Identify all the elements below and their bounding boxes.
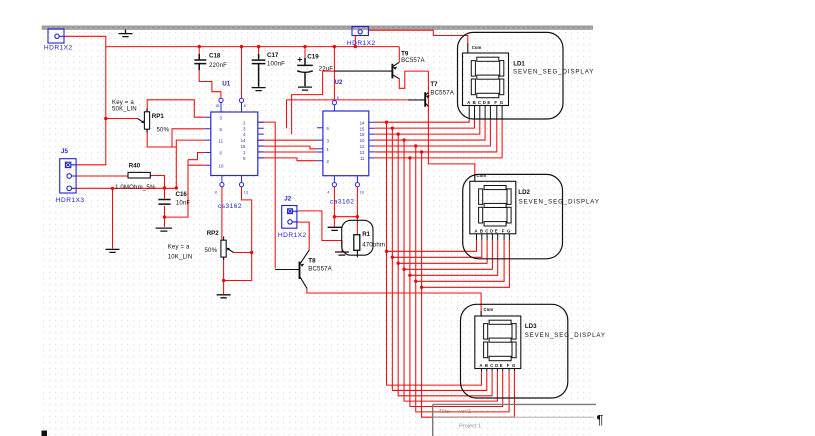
svg-text:U2: U2 (335, 79, 343, 86)
ground under RP2 (217, 295, 231, 298)
svg-text:16: 16 (215, 104, 219, 108)
junction (354, 45, 357, 48)
wire U1 bottom pin2 to RP2 bottom (224, 187, 252, 281)
wire segment C branch to LD2 pin (398, 240, 487, 263)
potentiometer RP2 (221, 237, 234, 261)
pin numbers U2 left (327, 126, 330, 164)
wire U1 row1 to T8 base (258, 122, 275, 268)
svg-text:50%: 50% (157, 126, 170, 133)
display LD2 rounded box (463, 174, 563, 258)
svg-text:ca3162: ca3162 (330, 198, 354, 205)
junction (222, 279, 225, 282)
wire segment G vertical to LD3 (422, 152, 515, 417)
capacitor C17 (252, 54, 266, 87)
svg-text:LD1: LD1 (513, 61, 525, 68)
wire segment E row U2 to LD1 pin (375, 119, 491, 146)
wire pin3 net to ground (112, 188, 114, 248)
wire bus end to T9 emitter (398, 47, 400, 62)
wire J2 pin2 to T8 emitter (298, 222, 309, 250)
wire C17 top (258, 47, 260, 58)
svg-text:cs3162: cs3162 (218, 203, 242, 210)
junction row G (420, 150, 423, 153)
wire segment A vertical to LD3 (387, 122, 482, 385)
wire U1 bottom pin1 to RP2 (221, 187, 223, 240)
wire J2 pin1 to ground near R1 (298, 211, 342, 252)
svg-text:10: 10 (360, 138, 365, 143)
IC U1 pins (205, 98, 264, 186)
wire C18 bottom to U1 pin (199, 65, 221, 99)
wire U1 row6 to U2 (258, 151, 317, 153)
wire HDR1X2-J3 to LD1 Com (368, 30, 468, 44)
svg-text:10K_LIN: 10K_LIN (168, 253, 193, 260)
wire segment B row U2 to LD1 pin (375, 119, 475, 128)
wire C19 top (304, 47, 306, 65)
LD3 pin black stubs (482, 369, 515, 372)
wire RP2 wiper junction (234, 252, 252, 254)
transistor T9 (334, 62, 399, 79)
pin numbers U1 left (219, 115, 224, 168)
display LD3 (475, 316, 521, 369)
svg-text:HDR1X2: HDR1X2 (278, 232, 307, 239)
IC U2 box (323, 111, 369, 176)
title block lines (433, 404, 596, 436)
junction row B (391, 126, 394, 129)
wire U2 bottom pin2 to R1 (356, 187, 358, 235)
wire J5 pin3 to C16 top junction (76, 187, 176, 189)
LD2 pin black stubs (477, 234, 510, 240)
capacitor C18 (194, 54, 206, 70)
svg-text:15: 15 (241, 144, 246, 149)
junction row F (414, 144, 417, 147)
svg-text:LD3: LD3 (525, 323, 537, 330)
svg-text:16: 16 (360, 191, 364, 195)
display LD3 rounded box (461, 304, 568, 398)
wire HDR1X2-J3 stub to bus (354, 36, 356, 47)
wire bus to U1 top pin2 (241, 47, 243, 99)
svg-text:15: 15 (360, 126, 365, 131)
wire segment B branch to LD2 pin (392, 240, 481, 257)
svg-text:SEVEN_SEG_DISPLAY: SEVEN_SEG_DISPLAY (519, 199, 600, 206)
svg-text:BC557A: BC557A (401, 57, 425, 64)
display LD1 (463, 53, 509, 106)
wire segment E vertical to LD3 (410, 158, 503, 407)
junction LD2 row D (402, 268, 405, 271)
pin numbers U1 right (241, 120, 246, 161)
wire segment B vertical to LD3 (392, 128, 486, 390)
junction LD2 row F (414, 280, 417, 283)
junction (163, 186, 166, 189)
svg-text:HDR1X2: HDR1X2 (44, 45, 73, 52)
junction (257, 45, 260, 48)
junction (111, 187, 114, 190)
svg-text:Com: Com (472, 45, 482, 50)
wire bus to U2 top pin (333, 47, 335, 101)
connector HDR1X2 J3 top-mid (352, 27, 368, 36)
wire VCC bus (106, 46, 400, 48)
ground left of R1 (335, 252, 349, 255)
connector HDR1X2 J1 top-left (48, 29, 64, 43)
junction LD2 row A (385, 250, 388, 253)
junction (240, 45, 243, 48)
svg-text:50%: 50% (205, 247, 218, 254)
svg-text:HDR1X2: HDR1X2 (347, 40, 376, 47)
junction LD2 row B (391, 256, 394, 259)
junction (104, 117, 107, 120)
junction LD2 row G (420, 286, 423, 289)
svg-text:50K_LIN: 50K_LIN (112, 105, 137, 112)
wire C16 bottom junction to ground (164, 206, 166, 227)
connector J5 (60, 159, 76, 193)
IC U2 pins (317, 101, 375, 187)
wire segment C vertical to LD3 (398, 134, 492, 396)
wire C16 top stub (164, 188, 166, 199)
svg-text:C18: C18 (209, 53, 221, 60)
svg-text:14: 14 (241, 138, 246, 143)
junction LD2 row C (397, 262, 400, 265)
display LD1 Com stub (467, 44, 469, 54)
svg-text:Com: Com (484, 307, 494, 312)
wire T9 base red part (323, 70, 335, 72)
wire T9 collector down to LD2 Com row (passes T7) (428, 71, 474, 176)
display LD2 Com stub (474, 176, 476, 182)
LD1 pin black stubs (469, 106, 502, 120)
wire J5 pin2 to R40 (76, 175, 128, 177)
wire C17 bottom to ground (258, 64, 260, 70)
wire T8 collector to LD3 Com (307, 288, 481, 316)
wire R40 right to C16 top (150, 176, 164, 189)
svg-text:HDR1X3: HDR1X3 (56, 197, 85, 204)
junction row A (385, 121, 388, 124)
wire U1 pin5 row (172, 129, 205, 147)
svg-text:R1: R1 (362, 231, 370, 238)
resistor R40 (128, 172, 150, 178)
svg-text:100nF: 100nF (267, 61, 285, 68)
potentiometer RP1 (138, 109, 150, 133)
capacitor C16 (158, 200, 170, 205)
wire C19 bottom to ground (304, 73, 306, 77)
wire segment D branch to LD2 pin (404, 240, 492, 269)
pin numbers U2 right (360, 120, 365, 161)
svg-text:Com: Com (477, 173, 487, 178)
svg-text:4: 4 (327, 191, 329, 195)
wire bus down to J5 pin1 (76, 47, 106, 165)
wire U1 row4 to U2 (258, 139, 317, 141)
junction (250, 251, 253, 254)
svg-text:¶: ¶ (597, 412, 604, 427)
svg-text:8: 8 (244, 104, 246, 108)
svg-text:C17: C17 (267, 52, 279, 59)
wire U2 bottom pin1 to ground and J2 (333, 187, 335, 227)
connector J2 (282, 206, 299, 229)
ground symbol top near bar (119, 30, 133, 37)
wire segment F row U2 to LD1 pin (375, 119, 497, 152)
transistor T7 (408, 92, 430, 107)
svg-text:J2: J2 (284, 196, 291, 203)
wire C18 top (198, 47, 200, 59)
svg-text:T8: T8 (308, 257, 316, 264)
svg-text:22uF: 22uF (319, 66, 334, 73)
display LD3 Com stub (480, 311, 482, 316)
IC U1 box (211, 112, 258, 176)
wire T7 base from U1 pin row2 (287, 100, 409, 128)
junction row D (402, 138, 405, 141)
junction (163, 215, 166, 218)
wire U1 pin6 route (188, 153, 205, 160)
svg-text:1.0MOhm_5%: 1.0MOhm_5% (115, 184, 156, 191)
svg-text:13: 13 (360, 150, 365, 155)
svg-text:LD2: LD2 (518, 189, 530, 196)
junction (333, 45, 336, 48)
junction row C (397, 132, 400, 135)
junction (198, 45, 201, 48)
resistor R1 with rounded box (342, 220, 373, 257)
wire segment D row U2 to LD1 pin (375, 119, 485, 140)
ground under C19 (298, 87, 312, 90)
pin numbers top/bottom tiny (215, 96, 364, 195)
svg-text:10nF: 10nF (176, 200, 191, 207)
junction (175, 186, 178, 189)
sheet top border bar (42, 26, 593, 30)
svg-text:BC557A: BC557A (308, 265, 332, 272)
wire T9 collector step (399, 71, 428, 88)
wire segment E branch to LD2 pin (410, 240, 498, 275)
wire segment D vertical to LD3 (404, 140, 497, 401)
svg-text:T7: T7 (430, 81, 438, 88)
svg-text:16: 16 (360, 132, 365, 137)
wire HDR1X2-J1 to bus (64, 36, 106, 46)
wire RP2 bottom stub (223, 257, 225, 294)
display LD2 (470, 181, 516, 234)
svg-text:11: 11 (219, 138, 224, 143)
wire T9 base route from U1 pin row3 (292, 71, 323, 134)
junction (333, 215, 336, 218)
svg-text:SEVEN_SEG_DISPLAY: SEVEN_SEG_DISPLAY (525, 332, 606, 339)
pilcrow bottom-left (42, 431, 48, 436)
svg-text:U1: U1 (222, 81, 230, 88)
svg-text:BC557A: BC557A (430, 89, 454, 96)
svg-text:C16: C16 (176, 191, 188, 198)
transistor T8 (275, 250, 309, 288)
ground under U2 pin (328, 227, 342, 230)
schematic sheet background (42, 25, 595, 436)
wire segment A branch to LD2 pin (387, 240, 477, 251)
svg-text:12: 12 (360, 144, 365, 149)
svg-text:RP2: RP2 (207, 230, 220, 237)
ground on J5 pin3 net (106, 249, 120, 252)
wire segment C row U2 to LD1 pin (375, 119, 480, 134)
svg-text:5: 5 (337, 96, 339, 100)
wire segment F branch to LD2 pin (416, 240, 504, 281)
wire segment G branch to LD2 pin (422, 240, 510, 287)
wire RP1 top to U1 pin3 (147, 100, 205, 117)
svg-text:10: 10 (219, 163, 224, 168)
svg-text:Project 1: Project 1 (459, 424, 481, 430)
wire segment G row U2 to LD1 pin (375, 119, 502, 158)
svg-text:11: 11 (360, 156, 365, 161)
junction (356, 215, 359, 218)
junction LD2 row E (408, 274, 411, 277)
svg-text:C19: C19 (307, 54, 319, 61)
svg-text:R40: R40 (129, 162, 141, 169)
capacitor C19 polarized (297, 57, 313, 86)
svg-text:SEVEN_SEG_DISPLAY: SEVEN_SEG_DISPLAY (513, 69, 594, 76)
wire segment F vertical to LD3 (416, 146, 509, 412)
svg-text:vc#1: vc#1 (459, 409, 471, 415)
wire U1 row7 to U2 (258, 158, 317, 161)
svg-text:RP1: RP1 (152, 113, 165, 120)
junction row E (408, 156, 411, 159)
wire U1 pin10 route to C16 bottom (165, 160, 205, 217)
svg-text:Title:: Title: (439, 409, 451, 415)
ground under C17 (252, 88, 266, 91)
svg-text:Key = a: Key = a (168, 244, 190, 251)
svg-text:8: 8 (215, 191, 217, 195)
wire segment A row U2 to LD1 pin (375, 119, 469, 122)
svg-text:14: 14 (360, 120, 365, 125)
display LD1 rounded box (458, 32, 564, 119)
svg-text:470ohm: 470ohm (362, 241, 385, 248)
ground under C16 (156, 228, 173, 231)
svg-text:13: 13 (244, 191, 248, 195)
wire RP1 wiper from bus vertical (106, 118, 138, 120)
junction (303, 45, 306, 48)
wire U2 ground pin tie to R1 pin (334, 216, 357, 218)
svg-text:J5: J5 (61, 148, 68, 155)
svg-text:220nF: 220nF (209, 62, 227, 69)
wire RP1 bottom net to U1 pin11 (147, 129, 205, 188)
wire U1 row5 to U2 (258, 146, 317, 149)
